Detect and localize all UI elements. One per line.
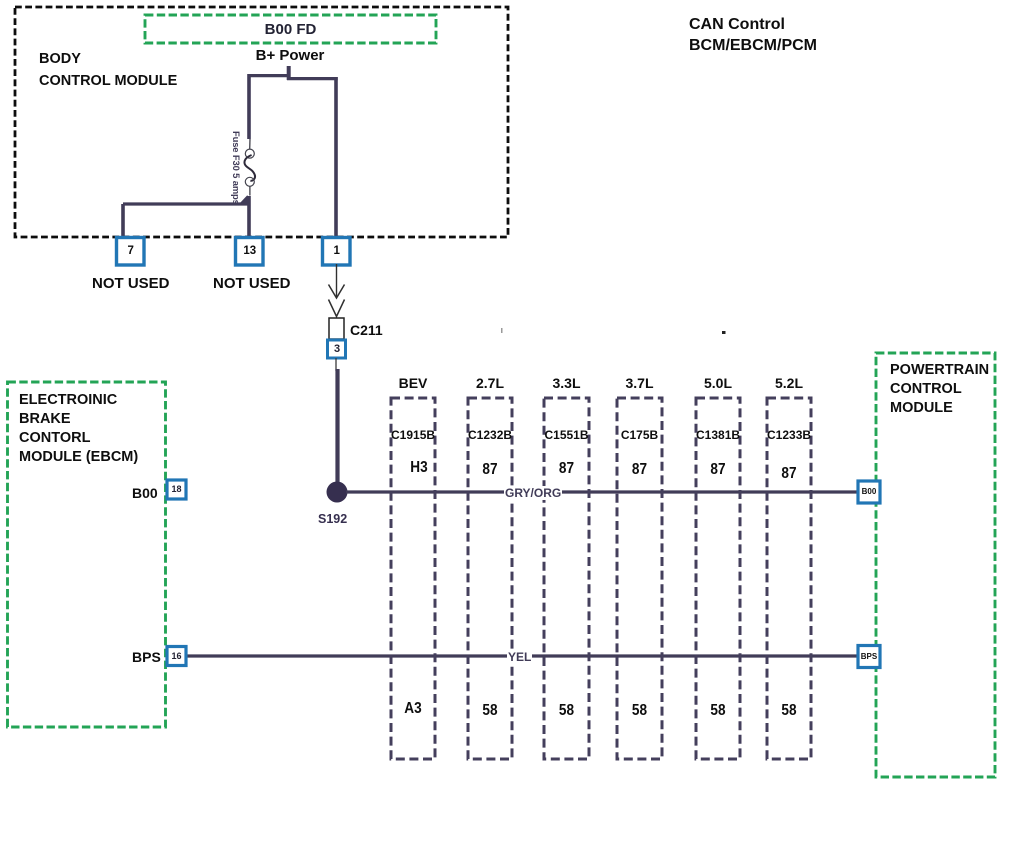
wire: B+ power horizontal right segment (287, 77, 338, 80)
EBCM green dashed box (8, 382, 166, 727)
engine option box 5.2L (767, 398, 811, 759)
fuse F30 symbol (244, 139, 255, 196)
connector C211 rect (329, 318, 344, 339)
label 58 (5.0L) (699, 702, 736, 720)
label NOT USED (pin 7) (92, 275, 170, 292)
label NOT USED (pin 13) (213, 275, 291, 292)
label pin 16 (167, 647, 186, 666)
stray mark left (501, 328, 503, 333)
EBCM pin box 16 (167, 647, 186, 666)
junction arrowhead at fuse bottom (239, 195, 248, 204)
label C1551B (544, 428, 589, 442)
wire: below fuse to pin 13 (247, 196, 251, 238)
pin box 3 (328, 340, 346, 358)
label A3 (394, 700, 431, 718)
PCM pin box BPS (858, 646, 880, 668)
label 3.7L (617, 375, 662, 391)
label pin B00 (PCM) (858, 481, 880, 503)
label C211 (350, 322, 383, 338)
label GRY/ORG (504, 486, 562, 500)
label POWERTRAIN CONTROL MODULE (890, 361, 989, 418)
wire: left vertical to fuse (247, 74, 251, 139)
wire: B+ power horizontal left segment (248, 74, 291, 77)
label BEV (391, 375, 435, 391)
pin box 1 (323, 238, 351, 266)
engine option box BEV (391, 398, 435, 759)
label CAN Control BCM/EBCM/PCM (689, 14, 817, 56)
pin box 7 (117, 238, 145, 266)
wire: B+ Power stub (287, 66, 291, 80)
label S192 (318, 512, 347, 526)
label C175B (617, 428, 662, 442)
wire: horizontal to pin 7 (123, 202, 249, 205)
label pin 18 (167, 480, 186, 499)
label 2.7L (468, 375, 512, 391)
label 87 (3.7L) (620, 461, 658, 479)
PCM green dashed box (876, 353, 995, 777)
engine option box 3.3L (544, 398, 589, 759)
wire: YEL horizontal (186, 654, 858, 657)
stray mark right (722, 331, 726, 334)
label BODY CONTROL MODULE (39, 48, 177, 92)
label 5.0L (696, 375, 740, 391)
pin box 13 (236, 238, 264, 266)
label C1233B (767, 428, 811, 442)
label B00 (EBCM) (132, 485, 158, 501)
svg-text:Fuse F30 5 amps: Fuse F30 5 amps (231, 131, 242, 205)
off-page arrow below pin 1 (329, 264, 345, 317)
label BPS (EBCM) (132, 649, 161, 665)
label 3.3L (544, 375, 589, 391)
label 87 (5.0L) (699, 461, 736, 479)
B00 FD green dashed box (145, 15, 436, 43)
wire: right vertical to pin 1 (334, 77, 338, 238)
label YEL (507, 650, 532, 664)
label 87 (3.3L) (547, 460, 585, 478)
wire: pin 3 down to S192 (336, 358, 338, 488)
label pin 13 (236, 238, 264, 266)
label ELECTROINIC BRAKE CONTORL MODULE (EBCM) (19, 391, 138, 467)
label 58 (5.2L) (770, 702, 807, 720)
label pin 1 (323, 238, 351, 266)
label pin 7 (117, 238, 145, 266)
label C1232B (468, 428, 512, 442)
label pin BPS (PCM) (858, 646, 880, 668)
label 87 (2.7L) (471, 461, 508, 479)
splice node S192 (327, 482, 348, 503)
label C1381B (696, 428, 740, 442)
label 5.2L (767, 375, 811, 391)
label pin 3 (328, 340, 346, 358)
engine option box 2.7L (468, 398, 512, 759)
label 87 (5.2L) (770, 465, 807, 483)
label H3 (400, 459, 437, 477)
engine option box 3.7L (617, 398, 662, 759)
label B+ Power (249, 47, 331, 64)
label C1915B (391, 428, 435, 442)
label B00 FD (145, 21, 436, 38)
label 58 (3.7L) (620, 702, 658, 720)
label 58 (2.7L) (471, 702, 508, 720)
PCM pin box B00 (858, 481, 880, 503)
body control module dashed box (15, 7, 508, 237)
EBCM pin box 18 (167, 480, 186, 499)
wire: vertical to pin 7 (121, 204, 125, 238)
label 58 (3.3L) (547, 702, 585, 720)
wire: GRY/ORG horizontal (346, 490, 858, 493)
engine option box 5.0L (696, 398, 740, 759)
